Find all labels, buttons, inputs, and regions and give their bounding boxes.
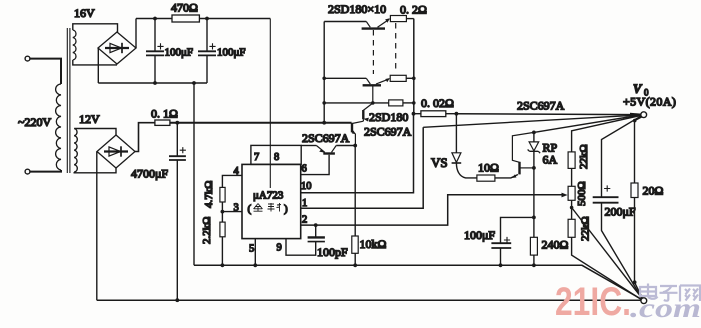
svg-text:(: (	[248, 203, 252, 215]
junction node lower rail / drop wire	[192, 81, 196, 85]
wire ink wedge at Vo terminal	[630, 113, 641, 117]
zener RP	[528, 132, 541, 168]
wire pin 4 to R3	[222, 175, 242, 187]
capacitor C5 100uF	[491, 217, 534, 265]
svg-text:100pF: 100pF	[317, 245, 348, 259]
svg-text:100μF: 100μF	[165, 47, 194, 59]
zener VS	[452, 114, 477, 178]
regulator ground rail	[194, 265, 643, 300]
capacitor C3 4700uF	[169, 123, 186, 301]
svg-text:200μF: 200μF	[605, 205, 636, 219]
resistor RP2 500ohm	[568, 186, 575, 200]
wire C4 top to pin 2 line	[315, 225, 317, 237]
svg-text:~220V: ~220V	[18, 115, 51, 129]
svg-text:100μF: 100μF	[217, 47, 246, 59]
wire pin 3	[222, 211, 242, 213]
AC input terminal lower	[25, 169, 30, 174]
dashed base continuation Q1..Q2	[372, 30, 374, 74]
resistor R5 10k	[352, 236, 358, 253]
capacitor C2 100uF	[198, 19, 216, 84]
wire Q5 collector node down to R5 and ground rail	[354, 146, 356, 266]
wire 16V lower rail down to regulator ground rail	[193, 83, 195, 265]
svg-text:4700μF: 4700μF	[131, 167, 168, 181]
resistor R11 240ohm	[530, 237, 537, 255]
svg-text:6: 6	[302, 164, 307, 175]
junction node 0.02 left	[412, 112, 416, 116]
svg-text:VS: VS	[431, 155, 448, 170]
resistor R7 0.2ohm	[390, 75, 406, 81]
svg-text:0. 1Ω: 0. 1Ω	[151, 107, 178, 121]
resistor R10 10ohm	[477, 175, 495, 181]
junction node lower rail / C1	[153, 81, 157, 85]
AC input terminal upper	[25, 56, 30, 61]
wire R13 down and slant to output common terminal	[572, 237, 643, 300]
junction node 20ohm bottom	[633, 280, 637, 284]
12V positive rail	[170, 122, 352, 124]
svg-text:2SC697A: 2SC697A	[364, 125, 412, 139]
wire R10 to Q6 emitter	[495, 175, 518, 178]
svg-text:2.2kΩ: 2.2kΩ	[201, 217, 213, 244]
wire 12V secondary top to bridge B2 top vertex	[74, 129, 116, 136]
emitter arrowhead Q6	[512, 174, 517, 178]
divider sense wire from Vo to 22k	[572, 115, 642, 152]
wire R11 to ground rail	[533, 255, 535, 265]
dashed emitter resistor continuation	[395, 23, 397, 73]
wire pin 10 to 0.02ohm left node	[301, 114, 414, 193]
resistor R8 0.2ohm	[389, 100, 403, 106]
svg-text:470Ω: 470Ω	[171, 1, 198, 15]
svg-text:2SC697A: 2SC697A	[302, 131, 350, 145]
svg-text:500Ω: 500Ω	[576, 181, 588, 206]
junction node Q6 base / RP bottom	[532, 166, 536, 170]
svg-text:22kΩ: 22kΩ	[580, 216, 592, 241]
junction node rail/pin5	[253, 263, 257, 267]
svg-text:9: 9	[277, 243, 282, 254]
wire AC lower terminal to primary bottom	[30, 170, 61, 172]
label (metal can)	[248, 203, 289, 215]
svg-text:12V: 12V	[79, 112, 100, 126]
output common return rail	[97, 299, 641, 301]
wire supply drop to uA723 pins 7/8	[269, 19, 271, 189]
svg-text:+5V(20A): +5V(20A)	[623, 95, 676, 109]
svg-text:16V: 16V	[74, 6, 95, 20]
wire R7 to right bus	[406, 77, 414, 79]
svg-text:2SD180×10: 2SD180×10	[328, 2, 386, 16]
resistor R1 470ohm	[172, 15, 199, 22]
wire Q2 base to base bus row3	[372, 87, 374, 103]
resistor R14 20ohm	[631, 117, 643, 299]
wire pin 5 to ground rail	[254, 239, 256, 266]
wire RP2 to R13	[571, 200, 573, 219]
transformer T1 primary winding	[56, 84, 61, 170]
wire 16V secondary bottom to bridge B1 bottom vertex	[73, 60, 117, 65]
wire B1 DC+ right vertex up to 470 ohm rail	[135, 19, 137, 49]
wire B2 DC+ right vertex up to 0.1 ohm	[135, 123, 155, 152]
svg-text:.com: .com	[630, 293, 701, 323]
transistor Q5 2SC697A predriver	[301, 146, 355, 154]
junction node rail / C3	[175, 121, 179, 125]
sense wire pin1 to Vo terminal	[423, 115, 641, 127]
svg-text:1: 1	[302, 198, 307, 209]
resistor R13 22k	[568, 219, 575, 237]
junction node rail/R4	[221, 263, 225, 267]
wire B2 left vertex down to output common rail	[96, 152, 98, 301]
svg-text:6A: 6A	[543, 153, 558, 167]
svg-text:10kΩ: 10kΩ	[360, 237, 387, 251]
wire R4 to ground rail	[221, 237, 223, 265]
16V top rail	[136, 18, 172, 20]
junction node bus/row2	[322, 77, 326, 81]
output terminal Vo	[641, 112, 647, 118]
junction node top rail / C2	[205, 17, 209, 21]
wire B1 DC- left vertex down to 16V lower rail	[97, 48, 99, 83]
resistor R3 4.7k	[220, 187, 225, 202]
transformer T1 12V secondary winding	[74, 129, 77, 173]
wire R8 to right bus	[403, 102, 414, 104]
svg-text:2SC697A: 2SC697A	[517, 99, 565, 113]
svg-text:21IC.: 21IC.	[555, 280, 631, 324]
resistor R12 22k	[568, 152, 575, 169]
wire 12V secondary bottom under bridge B2	[74, 168, 116, 173]
wire 470ohm to supply corner	[199, 18, 270, 20]
wire R3 to node pin3	[221, 202, 223, 222]
svg-text:0. 02Ω: 0. 02Ω	[421, 96, 454, 110]
junction node rail / left bus	[322, 121, 326, 125]
transistor bank left collector bus	[323, 22, 325, 123]
wire AC upper terminal to primary top	[30, 59, 61, 84]
wire R12 to RP2	[571, 168, 573, 186]
wire RP node down to 240ohm	[533, 168, 535, 237]
wire pin 1 to sense riser	[301, 127, 424, 208]
svg-text:10Ω: 10Ω	[478, 161, 499, 175]
junction node zener RP top / sense line	[532, 131, 536, 135]
junction node 20ohm top bend	[633, 119, 637, 123]
junction node rail/C5	[499, 263, 503, 267]
junction node Q4 emitter / Q5 collector	[353, 144, 357, 148]
bridge rectifier B1 (16V)	[98, 32, 136, 64]
resistor R4 2.2k	[220, 222, 225, 237]
svg-text:0. 2Ω: 0. 2Ω	[400, 3, 427, 17]
svg-text:μA723: μA723	[253, 190, 284, 202]
transformer T1 core	[67, 28, 70, 173]
IC U1 uA723 body	[242, 164, 301, 238]
junction node rail/R5	[353, 263, 357, 267]
junction node rail/R11	[532, 263, 536, 267]
svg-text:20Ω: 20Ω	[643, 184, 664, 198]
wire 16V secondary top to bridge B1 top vertex	[73, 24, 118, 32]
wiper arrowhead into RP2 500ohm	[562, 193, 568, 198]
hand-drawn CJK feng	[268, 203, 282, 212]
svg-text:100μF: 100μF	[464, 228, 495, 242]
capacitor C4 100pF	[308, 236, 325, 238]
svg-text:5: 5	[249, 244, 254, 255]
wire R6 to right bus corner	[406, 18, 413, 20]
resistor R9 0.02ohm	[421, 111, 446, 117]
svg-text:2: 2	[302, 215, 307, 226]
output common terminal	[641, 298, 647, 304]
hand-drawn CJK jin	[254, 204, 263, 212]
16V lower rail	[98, 82, 207, 84]
svg-text:8: 8	[274, 152, 279, 163]
wire bus to 0.02ohm	[414, 113, 421, 115]
transistor Q6 2SC697A sense	[512, 132, 534, 174]
junction node 0.02 right / VS	[455, 112, 459, 116]
svg-text:22kΩ: 22kΩ	[578, 144, 590, 169]
junction node right bus/row2	[412, 77, 416, 81]
junction node C5 tap	[532, 216, 536, 220]
transistor Q2 (2SD180 bank bottom)	[324, 78, 390, 85]
junction node pin3/R3/R4	[221, 210, 225, 214]
transistor Q3 2SD180 driver	[363, 103, 372, 121]
bridge rectifier B2 (12V)	[97, 135, 135, 168]
wire pin 2 to divider wiper	[301, 195, 564, 225]
junction node top rail / C1	[153, 17, 157, 21]
svg-text:4.7kΩ: 4.7kΩ	[203, 181, 215, 208]
transistor Q4 2SC697A driver	[352, 121, 364, 145]
capacitor C1 100uF	[146, 19, 164, 84]
junction node pin2 / C4	[314, 223, 318, 227]
svg-text:10: 10	[301, 181, 312, 192]
resistor R2 0.1ohm	[155, 120, 170, 125]
resistor R6 0.2ohm	[390, 16, 406, 22]
svg-text:7: 7	[254, 152, 259, 163]
svg-text:2SD180: 2SD180	[369, 110, 408, 124]
capacitor C6 200uF	[593, 116, 643, 300]
wire 0.02ohm to Vo node	[446, 113, 457, 115]
svg-text:): )	[284, 203, 288, 215]
emitter bus right vertical	[413, 19, 415, 114]
base bus row3 line	[324, 102, 389, 104]
svg-text:240Ω: 240Ω	[542, 238, 569, 252]
transistor Q1 (2SD180 bank top)	[324, 18, 390, 28]
transformer T1 16V secondary winding	[73, 30, 76, 60]
sense wire node to Vo terminal	[534, 115, 641, 132]
wire pin 9 to C4 bottom	[286, 239, 316, 256]
junction node base bus	[371, 101, 375, 105]
junction node right bus/row3	[412, 101, 416, 105]
main output line to Vo terminal	[456, 113, 641, 116]
junction node return rail / C3	[175, 298, 179, 302]
sense wire divider to output common terminal	[572, 208, 643, 300]
watermark CJK dian zi wang	[640, 284, 700, 302]
junction node bus/row3	[322, 101, 326, 105]
IC U1 uA723 shelf (pins 7,8)	[251, 145, 301, 164]
junction node divider sense	[570, 206, 574, 210]
wire pin 6 to Q5 base	[301, 155, 329, 175]
